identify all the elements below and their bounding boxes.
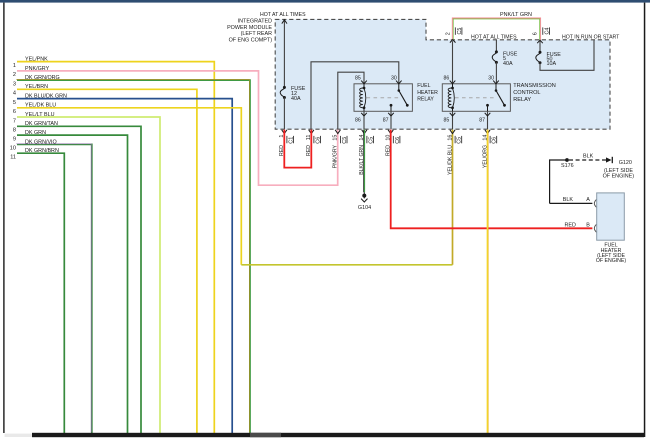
svg-text:RED: RED <box>565 222 576 228</box>
svg-text:PNK/GRY: PNK/GRY <box>333 144 339 168</box>
svg-text:PNK/LT GRN: PNK/LT GRN <box>500 12 532 18</box>
svg-text:C5: C5 <box>457 137 463 144</box>
svg-text:86: 86 <box>444 76 450 82</box>
svg-text:9: 9 <box>13 136 16 142</box>
svg-text:YEL/DK BLU: YEL/DK BLU <box>25 103 56 109</box>
svg-text:85: 85 <box>355 76 361 82</box>
svg-text:INTEGRATED: INTEGRATED <box>238 19 272 25</box>
svg-text:30: 30 <box>391 76 397 82</box>
svg-text:86: 86 <box>355 117 361 123</box>
svg-text:FUEL: FUEL <box>417 83 430 89</box>
svg-text:HOT IN RUN OR START: HOT IN RUN OR START <box>562 34 620 40</box>
svg-text:POWER MODULE: POWER MODULE <box>227 25 272 31</box>
svg-text:(LEFT REAR: (LEFT REAR <box>241 31 272 37</box>
svg-text:HEATER: HEATER <box>417 90 438 96</box>
svg-text:OF ENGINE): OF ENGINE) <box>603 174 635 180</box>
svg-text:S176: S176 <box>561 163 574 169</box>
svg-text:2: 2 <box>13 72 16 78</box>
svg-text:DK GRN/BRN: DK GRN/BRN <box>25 148 59 154</box>
svg-text:10A: 10A <box>547 61 557 67</box>
svg-text:RED: RED <box>386 145 392 156</box>
svg-text:DK GRN/ORG: DK GRN/ORG <box>25 75 60 81</box>
svg-text:RELAY: RELAY <box>513 97 531 103</box>
svg-text:C5: C5 <box>342 137 348 144</box>
svg-text:YEL/DK BLU: YEL/DK BLU <box>447 145 453 175</box>
svg-text:40A: 40A <box>291 96 301 102</box>
svg-text:YEL/LT BLU: YEL/LT BLU <box>25 112 55 118</box>
svg-text:3: 3 <box>13 81 16 87</box>
svg-text:10: 10 <box>10 146 16 152</box>
svg-text:6: 6 <box>533 32 539 35</box>
svg-text:OF ENGINE): OF ENGINE) <box>596 258 627 264</box>
svg-text:87: 87 <box>383 117 389 123</box>
svg-text:G104: G104 <box>358 205 371 211</box>
svg-text:YEL/PNK: YEL/PNK <box>25 57 48 63</box>
svg-text:BLK: BLK <box>563 197 574 203</box>
svg-text:1: 1 <box>13 63 16 69</box>
svg-text:OF ENG COMPT): OF ENG COMPT) <box>229 37 273 43</box>
svg-text:5: 5 <box>13 100 16 106</box>
svg-text:C5: C5 <box>369 137 375 144</box>
svg-text:85: 85 <box>444 117 450 123</box>
svg-text:11: 11 <box>10 155 16 161</box>
svg-text:7: 7 <box>13 118 16 124</box>
svg-text:DK GRN/VIO: DK GRN/VIO <box>25 139 57 145</box>
svg-text:RED: RED <box>306 145 312 156</box>
svg-text:C6: C6 <box>395 137 401 144</box>
svg-text:YEL/ORG: YEL/ORG <box>482 145 488 168</box>
svg-text:87: 87 <box>479 117 485 123</box>
svg-text:RED: RED <box>279 145 285 156</box>
svg-text:BLK/LT GRN: BLK/LT GRN <box>359 145 365 175</box>
svg-text:DK GRN/TAN: DK GRN/TAN <box>25 121 58 127</box>
svg-text:16: 16 <box>447 135 453 141</box>
svg-text:G120: G120 <box>619 160 632 166</box>
svg-text:C6: C6 <box>492 137 498 144</box>
svg-text:8: 8 <box>13 128 16 134</box>
svg-text:PNK/GRY: PNK/GRY <box>25 66 50 72</box>
svg-text:C4: C4 <box>544 28 550 35</box>
svg-text:RELAY: RELAY <box>417 96 434 102</box>
svg-text:40A: 40A <box>503 61 513 67</box>
svg-text:TRANSMISSION: TRANSMISSION <box>513 83 556 89</box>
svg-text:C6: C6 <box>316 137 322 144</box>
svg-text:2: 2 <box>446 32 452 35</box>
svg-text:4: 4 <box>13 91 16 97</box>
svg-text:BLK: BLK <box>583 154 594 160</box>
svg-text:30: 30 <box>488 76 494 82</box>
svg-text:A: A <box>586 197 590 203</box>
svg-text:CONTROL: CONTROL <box>513 90 540 96</box>
svg-text:C5: C5 <box>457 28 463 35</box>
svg-text:HOT AT ALL TIMES: HOT AT ALL TIMES <box>260 12 306 18</box>
svg-text:DK GRN: DK GRN <box>25 130 46 136</box>
svg-text:B: B <box>586 222 590 228</box>
svg-text:YEL/BRN: YEL/BRN <box>25 84 48 90</box>
svg-text:6: 6 <box>13 109 16 115</box>
svg-text:DK BLU/DK GRN: DK BLU/DK GRN <box>25 94 67 100</box>
svg-text:HOT AT ALL TIMES: HOT AT ALL TIMES <box>471 34 517 40</box>
svg-text:C1: C1 <box>289 137 295 144</box>
svg-text:15: 15 <box>333 135 339 141</box>
